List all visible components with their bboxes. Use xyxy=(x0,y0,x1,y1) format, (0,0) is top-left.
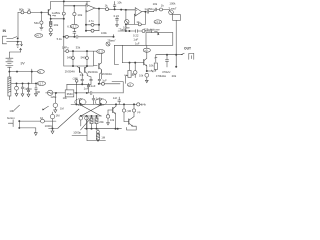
ground R4 xyxy=(15,94,18,97)
transistor Q3 xyxy=(84,67,86,72)
resistor R7 10k xyxy=(50,19,52,22)
ground C3 xyxy=(27,94,30,97)
wire U1 feedback right xyxy=(98,9,100,31)
svg-text:+1.7: +1.7 xyxy=(38,82,44,86)
wire battery top xyxy=(9,52,20,58)
svg-text:10: 10 xyxy=(40,116,44,120)
svg-text:2N304A: 2N304A xyxy=(88,70,98,74)
svg-text:"Tone": "Tone" xyxy=(119,28,127,32)
pointer 1000p to bridge xyxy=(58,109,79,128)
wire input line xyxy=(18,11,48,13)
op-amp U2 xyxy=(135,8,142,16)
resistor R2 1k xyxy=(28,11,31,14)
wire into ellipse xyxy=(75,85,77,105)
resistor R11 540k xyxy=(72,51,74,57)
wire q5 emitter loop xyxy=(127,126,137,130)
node +1.5 oval xyxy=(97,50,105,54)
node +4.1 oval xyxy=(154,20,162,24)
wire left col down xyxy=(114,45,118,64)
wire U1 feedback left xyxy=(85,11,87,31)
wire U1 output xyxy=(95,7,106,10)
svg-text:pp: pp xyxy=(137,111,140,114)
capacitor C13 xyxy=(116,17,119,24)
capacitor C3 +100 xyxy=(28,82,30,84)
dashed shield LDR left xyxy=(75,99,86,106)
svg-text:470kΩw: 470kΩw xyxy=(156,74,167,78)
resistor R24 xyxy=(107,110,109,115)
svg-text:-: - xyxy=(136,13,137,16)
transistor Q1 xyxy=(47,10,49,15)
ground R24 xyxy=(107,123,110,125)
pointer 10k leader xyxy=(14,105,20,110)
svg-text:540k: 540k xyxy=(67,55,73,59)
svg-text:10k: 10k xyxy=(110,118,115,122)
ground R20 xyxy=(145,80,148,82)
wire battery bottom xyxy=(8,67,10,71)
svg-text:54k: 54k xyxy=(34,21,39,25)
potentiometer VR1 xyxy=(125,20,129,24)
wire emitter node xyxy=(51,18,64,20)
wire column down xyxy=(63,19,65,66)
svg-text:1000p: 1000p xyxy=(45,124,53,128)
svg-text:3MΩ: 3MΩ xyxy=(67,92,73,96)
resistor R9 10k top xyxy=(73,6,75,13)
wire rail top A xyxy=(51,0,90,2)
ground R5 xyxy=(40,27,43,30)
resistor R3 thermistor xyxy=(8,72,10,77)
node +1.7 voltage oval xyxy=(37,81,45,85)
capacitor C7 xyxy=(73,28,76,37)
node U2 out xyxy=(144,11,146,13)
battery B1 9V xyxy=(6,58,13,67)
resistor R4 xyxy=(16,82,18,84)
ground C4 xyxy=(35,94,38,97)
svg-text:+1.5: +1.5 xyxy=(97,50,103,54)
capacitor C14 xyxy=(147,10,153,13)
wire osc mid line xyxy=(64,50,97,52)
svg-text:+9: +9 xyxy=(38,70,42,74)
wire box bottom left xyxy=(114,44,146,46)
svg-text:1M: 1M xyxy=(101,136,105,140)
svg-text:5.1k: 5.1k xyxy=(57,37,63,41)
wire U1 minus input xyxy=(85,10,88,12)
svg-text:20k: 20k xyxy=(172,74,177,78)
svg-text:10k: 10k xyxy=(153,2,158,6)
wire switch line2 xyxy=(19,121,36,132)
resistor R8 xyxy=(65,35,68,38)
svg-text:1uF: 1uF xyxy=(91,84,96,88)
resistor R10 xyxy=(66,50,69,53)
capacitor C4 xyxy=(35,82,37,84)
wire U2 plus input xyxy=(124,9,135,11)
resistor R31 xyxy=(133,104,135,109)
svg-text:540k: 540k xyxy=(81,55,87,59)
svg-text:100k: 100k xyxy=(101,31,107,35)
svg-text:-: - xyxy=(87,10,88,13)
wire 1000p line xyxy=(49,128,58,130)
ground R33 xyxy=(51,129,54,134)
wire mid node line xyxy=(53,92,124,94)
resistor R17 xyxy=(142,30,145,33)
potentiometer VR2 level xyxy=(169,10,174,15)
wire tone line xyxy=(118,30,150,32)
input jack J1 xyxy=(3,36,7,44)
wire battery chassis arrow xyxy=(20,48,22,52)
svg-text:80k: 80k xyxy=(19,8,24,12)
svg-text:1uF: 1uF xyxy=(102,78,107,82)
wire rail drop opamp xyxy=(86,1,88,4)
resistor R5 54k xyxy=(40,12,42,20)
svg-text:6.1: 6.1 xyxy=(67,25,71,29)
wire osc bottom line xyxy=(67,83,91,85)
svg-text:10k: 10k xyxy=(117,0,122,4)
svg-text:2N304A: 2N304A xyxy=(65,70,75,74)
resistor R16 xyxy=(160,8,163,11)
svg-text:10k: 10k xyxy=(53,23,58,27)
wire out line xyxy=(156,54,183,56)
note box xyxy=(146,33,173,46)
dashed shield LDR right xyxy=(95,99,106,106)
wire osc base line xyxy=(64,65,94,67)
svg-text:10k: 10k xyxy=(63,96,68,100)
node emitter out xyxy=(146,70,148,72)
svg-text:OUT: OUT xyxy=(184,46,191,50)
node +1.7 oval mid xyxy=(70,24,78,28)
transistor Q5 xyxy=(128,119,130,124)
svg-text:2N304A: 2N304A xyxy=(102,72,112,76)
svg-text:+1.7: +1.7 xyxy=(71,25,77,29)
transistor Q2 xyxy=(79,67,81,72)
resistor R18 xyxy=(129,63,131,71)
wire R18 bottom link xyxy=(126,76,129,84)
ground jack sleeve xyxy=(16,42,19,48)
wire input vertical xyxy=(17,12,19,38)
svg-text:0.22: 0.22 xyxy=(114,14,120,18)
wire q5 base col xyxy=(124,104,129,121)
svg-text:4.7u: 4.7u xyxy=(89,19,95,23)
capacitor C11 4.7u xyxy=(86,24,99,26)
transistor Q6 xyxy=(143,60,145,65)
LDR glyph left xyxy=(79,100,81,104)
capacitor C12 top xyxy=(113,1,116,9)
svg-text:1uF: 1uF xyxy=(84,86,89,90)
svg-text:20k: 20k xyxy=(99,120,104,124)
wire q6 base col xyxy=(121,45,123,62)
pushbutton SW2 xyxy=(8,120,13,127)
svg-text:"Bass": "Bass" xyxy=(108,38,116,42)
svg-text:33k: 33k xyxy=(76,46,81,50)
svg-text:1000p: 1000p xyxy=(73,130,81,134)
wire bottom rail xyxy=(85,128,122,130)
transistor Q4 xyxy=(112,107,114,112)
svg-text:(1M: (1M xyxy=(127,109,131,113)
wire hook into box xyxy=(150,31,152,33)
resistor R30 2.4k xyxy=(137,103,140,106)
svg-text:1k.: 1k. xyxy=(105,4,109,8)
pointer arrow curve xyxy=(154,32,159,35)
capacitor C19 series xyxy=(90,91,91,94)
resistor box R23 3M xyxy=(65,90,74,97)
capacitor C18 xyxy=(87,83,90,93)
wire jack to battery xyxy=(18,42,22,46)
resistor R12 540k xyxy=(86,51,88,57)
svg-text:1M: 1M xyxy=(56,114,61,118)
resistor R21 out left xyxy=(155,55,157,62)
svg-text:9V: 9V xyxy=(21,61,26,65)
switch box SW1 xyxy=(173,15,181,21)
svg-text:1uF: 1uF xyxy=(133,37,138,41)
svg-text:1uF: 1uF xyxy=(113,96,118,100)
svg-text:1k: 1k xyxy=(161,4,165,8)
node +4 oval mid xyxy=(127,83,133,87)
svg-text:10k: 10k xyxy=(9,109,14,113)
svg-text:+4.7: +4.7 xyxy=(35,34,41,38)
svg-text:10k: 10k xyxy=(77,13,82,17)
LDR glyph right xyxy=(99,100,101,104)
svg-text:+9: +9 xyxy=(144,48,148,52)
wire osc top line xyxy=(64,36,114,38)
svg-text:"Lead": "Lead" xyxy=(168,6,176,10)
capacitor C2 xyxy=(22,82,24,84)
svg-text:100k: 100k xyxy=(169,2,176,6)
wire switch line1 xyxy=(19,120,56,122)
resistor R32 xyxy=(41,119,45,123)
node +9 oval right xyxy=(143,48,150,52)
lamp LP1 xyxy=(46,92,48,94)
resistor R6 xyxy=(63,1,65,12)
ground R22 xyxy=(54,110,57,113)
node line end stub xyxy=(113,36,115,38)
svg-text:1u450u: 1u450u xyxy=(52,11,61,15)
resistor R25 xyxy=(86,115,88,117)
resistor R34 xyxy=(102,82,105,85)
resistor R19 xyxy=(134,63,136,71)
resistor R26 xyxy=(91,116,93,118)
wire osc bottom corner xyxy=(66,84,68,90)
wire bridge bottom col xyxy=(86,116,88,141)
resistor R22 xyxy=(54,93,56,103)
transistor Q3b xyxy=(93,51,97,66)
wire level down xyxy=(175,20,177,54)
wire rail mid xyxy=(11,82,37,84)
capacitor C17 470uF xyxy=(165,55,168,67)
resistor R28 xyxy=(97,129,99,131)
bridge mid line xyxy=(81,115,102,117)
op-amp U1 xyxy=(86,4,95,12)
wire out right col xyxy=(175,55,177,67)
wire U1 out to U2 xyxy=(109,8,136,11)
node +9 voltage oval xyxy=(38,70,45,74)
capacitor C8 xyxy=(81,79,84,84)
resistor R14 1k xyxy=(106,8,109,11)
capacitor C6 xyxy=(76,35,78,38)
resistor R20 xyxy=(145,73,149,77)
resistor R15 1k xyxy=(138,23,141,26)
capacitor C15 xyxy=(155,8,159,11)
resistor R29 1M xyxy=(122,109,125,112)
bridge X xyxy=(81,105,101,116)
wire corner right xyxy=(112,82,123,93)
wire line B xyxy=(64,5,86,7)
wire U2 left col xyxy=(125,10,127,31)
ground C13 xyxy=(116,25,119,27)
svg-text:1k: 1k xyxy=(27,8,31,12)
wire line right of caps xyxy=(99,83,120,85)
resistor R1 80k xyxy=(21,11,24,14)
node +4.7 voltage oval xyxy=(35,34,43,38)
svg-text:1uF: 1uF xyxy=(96,96,101,100)
pointer 1000p2 xyxy=(81,119,91,131)
wire rail link xyxy=(31,69,33,83)
pointer arrow ldr xyxy=(43,106,49,110)
wire level line xyxy=(154,10,155,12)
resistor R27 xyxy=(96,116,98,118)
resistor R33 xyxy=(52,112,54,114)
ground switch xyxy=(34,133,37,136)
svg-text:button: button xyxy=(7,116,15,120)
capacitor C9 xyxy=(90,79,93,84)
svg-text:1M: 1M xyxy=(60,107,64,111)
wire rail V+ xyxy=(9,71,37,73)
ground C5 xyxy=(49,33,52,36)
wire lfo out line xyxy=(71,103,137,105)
node A junction xyxy=(40,11,42,13)
capacitor C21 xyxy=(118,97,121,104)
resistor R35 xyxy=(86,30,99,32)
svg-text:0.1: 0.1 xyxy=(80,73,84,77)
svg-text:100: 100 xyxy=(35,90,40,94)
capacitor C10 xyxy=(98,70,101,84)
node tip junction xyxy=(17,38,19,40)
svg-text:10k: 10k xyxy=(139,74,144,78)
resistor R25b xyxy=(80,115,82,117)
capacitor C20 xyxy=(92,95,95,104)
svg-text:IN: IN xyxy=(3,29,7,33)
svg-text:470ufv: 470ufv xyxy=(162,70,171,74)
wire U2 output xyxy=(142,11,147,13)
svg-text:1uF: 1uF xyxy=(135,42,140,46)
capacitor C16 xyxy=(136,30,137,33)
svg-text:+4.1: +4.1 xyxy=(155,20,161,24)
potentiometer VR3 xyxy=(106,42,110,46)
wire U2 feedback xyxy=(126,12,145,25)
svg-text:10k: 10k xyxy=(149,63,154,67)
svg-text:120k: 120k xyxy=(50,95,57,99)
wire bottom low rail xyxy=(87,140,106,142)
svg-text:14Pu: 14Pu xyxy=(62,46,69,50)
capacitor C5 xyxy=(50,26,52,28)
output jack J2 xyxy=(189,53,194,59)
switch out contact xyxy=(181,53,184,55)
svg-text:1u450u: 1u450u xyxy=(144,7,154,11)
wire q6 base line xyxy=(122,62,144,64)
